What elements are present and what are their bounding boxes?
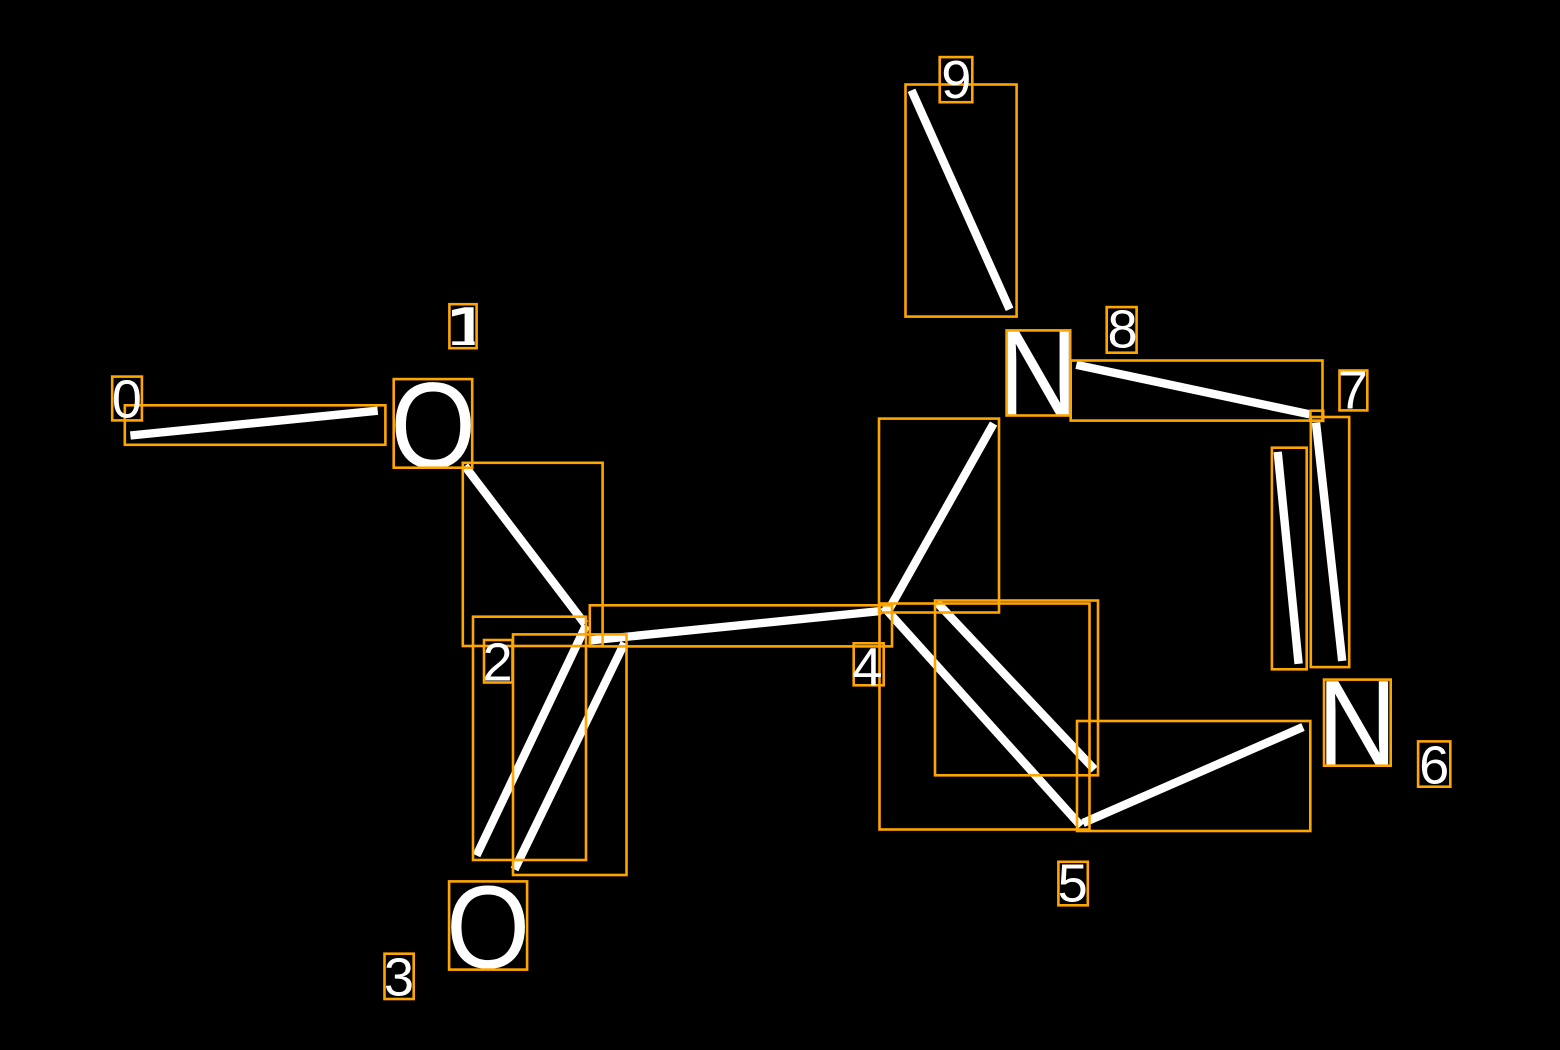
- node box bond N8-C7: [1071, 361, 1323, 421]
- label box 4: [854, 643, 884, 685]
- label box 6: [1418, 741, 1450, 786]
- node box atom N8: [1007, 330, 1071, 415]
- svg-text:0: 0: [112, 370, 142, 430]
- wire bond O1-C2: [465, 466, 585, 624]
- node box carbonyl inner line: [513, 634, 627, 875]
- label box 7: [1340, 371, 1368, 411]
- node box C7=N6 outer line: [1311, 417, 1349, 667]
- node box bond N8-C9: [906, 85, 1017, 317]
- wire bond C2=O3 outer: [477, 626, 587, 856]
- wire bond C0-O1: [130, 411, 377, 436]
- label box 9: [940, 57, 973, 102]
- svg-text:2: 2: [483, 632, 513, 692]
- svg-text:6: 6: [1419, 736, 1449, 796]
- node box carbonyl outer line: [473, 617, 586, 860]
- wire bond C2=O3 inner: [515, 643, 625, 870]
- node box C4=C5 outer line: [880, 604, 1090, 830]
- wire bond N8-C7: [1076, 365, 1309, 415]
- wire bond C5-N6: [1083, 727, 1303, 823]
- svg-text:N: N: [998, 305, 1078, 441]
- wire bond C4=C5 inner: [937, 603, 1095, 770]
- label box 5: [1058, 862, 1087, 906]
- svg-text:7: 7: [1338, 361, 1368, 421]
- svg-text:8: 8: [1108, 299, 1138, 359]
- label box 3: [385, 954, 414, 999]
- svg-text:4: 4: [852, 638, 882, 698]
- wire bond C4-N8: [887, 424, 994, 613]
- wire bond N8-C9: [912, 90, 1010, 309]
- wire bond C4=C5 outer: [884, 607, 1082, 827]
- wire bond C7=N6 outer: [1316, 423, 1342, 661]
- node box C7 vertex: [1310, 411, 1323, 421]
- label box 8: [1107, 307, 1137, 353]
- svg-text:3: 3: [384, 947, 414, 1007]
- node box bond1: [463, 463, 603, 646]
- wire bond C7=N6 inner: [1278, 452, 1299, 664]
- label box 1: [449, 304, 476, 348]
- label digit 1: [452, 307, 475, 345]
- node box atom O3: [449, 881, 527, 969]
- label box 2: [484, 640, 513, 683]
- wire bond C2-C4: [590, 611, 882, 641]
- node box atom N6: [1324, 680, 1391, 766]
- node box bond C4-N8: [879, 419, 999, 613]
- svg-text:N: N: [1317, 655, 1397, 791]
- svg-text:5: 5: [1058, 854, 1088, 914]
- node box atom O1: [394, 379, 473, 468]
- node box C7=N6 inner line: [1272, 448, 1307, 670]
- node box bond C5-N6: [1077, 721, 1310, 831]
- node box bond C2-C4: [590, 605, 892, 646]
- label box 0: [112, 377, 142, 421]
- node box bond0: [125, 405, 386, 445]
- svg-text:9: 9: [941, 50, 971, 110]
- node box C4=C5 inner line: [935, 601, 1098, 776]
